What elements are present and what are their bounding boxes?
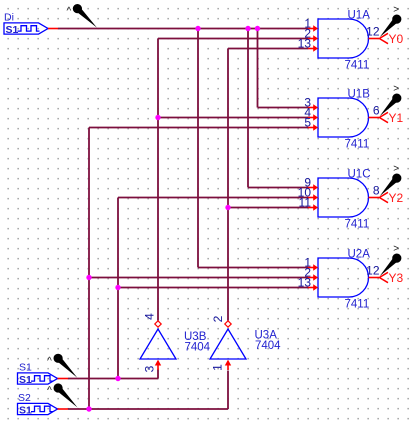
wire U3A input from S2 row [227,371,229,410]
pin number U1A.1 [304,16,311,30]
voltage probe on Y3 output [380,244,402,276]
pin number U3B.4 (output) [143,313,157,320]
wire vertical net S2 at x=89 [88,128,90,410]
svg-text:7411: 7411 [345,219,370,231]
svg-text:^: ^ [66,6,71,17]
wire S2 to U2A pin 2 [89,277,308,279]
wire Di branch to U2A pin 1 [198,267,308,269]
label U1C [348,168,371,180]
AND gate U2A (7411) [308,258,388,297]
junction S1 row / x118 [115,376,120,381]
pin number U3B.3 (input) [143,365,157,372]
wire /S2 to U1C pin 11 [228,207,308,209]
svg-text:3: 3 [143,365,157,372]
pin number U1C.11 [299,195,312,209]
net label Y3 [389,271,404,285]
voltage probe on S1 input [47,354,77,378]
AND gate U1A (7411) [308,19,388,58]
wire S1 row from connector to U3B input corner [68,378,158,380]
pin stub Di output [48,28,58,30]
voltage probe on Y0 output [380,5,402,37]
pin number U2A.13 [298,275,312,289]
svg-text:2: 2 [211,315,225,322]
pin number U1B.3 [304,95,311,109]
svg-text:S1: S1 [19,404,32,416]
pin number U1B.4 [304,105,311,119]
svg-text:Y1: Y1 [389,111,404,125]
svg-text:S1: S1 [6,24,19,36]
svg-text:12: 12 [366,25,380,39]
wire Di branch to U1C pin 9 [248,187,308,189]
pin number U1B.5 [304,115,311,129]
wire /S1 to U1B pin 4 [158,117,308,119]
pin number U2A.2 [304,265,311,279]
svg-text:U1A: U1A [348,9,371,21]
junction Di/x257.5 [255,26,260,31]
value label 7411 of U2A [345,299,370,311]
svg-text:Y3: Y3 [389,271,404,285]
net label Y2 [389,191,404,205]
pin number U3A.2 (output) [211,315,225,322]
input connector Di (pattern generator) [4,12,48,36]
svg-text:^: ^ [47,386,52,397]
inverter U3A (7404) [210,321,246,370]
svg-text:S2: S2 [18,392,31,404]
svg-text:13: 13 [298,36,312,50]
value label 7411 of U1B [345,139,370,151]
svg-text:7404: 7404 [185,342,211,354]
wire vertical net S1 at x=118 [117,198,119,379]
pin number U2A.12 (output) [366,264,380,278]
svg-text:1: 1 [211,364,225,371]
svg-text:13: 13 [298,275,312,289]
net label Y0 [389,32,404,46]
svg-text:S1: S1 [19,374,32,386]
svg-text:U1C: U1C [348,168,371,180]
label U2A [348,248,371,260]
label U1A [348,9,371,21]
junction S2 row / x89 [86,406,91,411]
svg-text:S1: S1 [19,362,32,374]
svg-text:>: > [393,244,399,255]
pin number U1B.6 (output) [373,104,380,118]
wire vertical net Di drop at x=248 [247,29,249,188]
svg-text:6: 6 [373,104,380,118]
wire Di branch to U1B pin 3 [258,107,309,109]
pin number U1C.8 (output) [373,184,380,198]
voltage probe on Y1 output [380,84,402,116]
pin stub S1 output [58,378,69,380]
junction S2 at U2A pin 2 row [86,275,91,280]
pin number U1C.9 [304,175,311,189]
svg-text:Y2: Y2 [389,191,404,205]
svg-text:5: 5 [304,115,311,129]
junction /S1 at U1B pin 4 row [155,115,160,120]
pin number U3A.1 (input) [211,364,225,371]
inverter U3B (7404) [140,321,176,370]
svg-text:7411: 7411 [345,139,370,151]
voltage probe on S2 input [47,383,77,407]
junction S1 at U2A pin 13 row [115,285,120,290]
wire vertical net /S2 (U3A output) at x=228 [227,49,229,321]
wire Di row to U1A pin 1 [58,28,308,30]
value label 7404 of U3A [255,340,281,352]
net label Y1 [389,111,404,125]
input connector S2 (pattern generator) [18,392,58,416]
svg-text:>: > [393,164,399,175]
svg-text:U1B: U1B [348,88,371,100]
wire S1 to U2A pin 13 [118,287,308,289]
value label 7411 of U1C [345,219,370,231]
svg-text:11: 11 [299,195,312,209]
svg-text:U2A: U2A [348,248,371,260]
pin number U1A.12 (output) [366,25,380,39]
AND gate U1B (7411) [308,98,388,137]
wire vertical net Di drop at x=198 [197,29,199,268]
junction /S2 at U1C pin 11 row [225,205,230,210]
svg-text:7411: 7411 [345,60,370,72]
junction Di/x248 [245,26,250,31]
label U3A [255,330,278,342]
label U1B [348,88,371,100]
wire vertical net Di drop at x=257.5 [257,29,259,108]
label U3B [184,331,207,343]
svg-text:Di: Di [4,12,14,24]
wire U3B input from S1 row [157,370,159,379]
svg-text:12: 12 [366,264,380,278]
value label 7411 of U1A [345,60,370,72]
svg-text:Y0: Y0 [389,32,404,46]
value label 7404 of U3B [185,342,211,354]
pin stub S2 output [58,408,69,410]
AND gate U1C (7411) [308,178,388,217]
junction Di/x198 [195,26,200,31]
svg-text:>: > [393,5,399,16]
wire /S1 to U1A pin 2 [158,38,308,40]
svg-text:7404: 7404 [255,340,281,352]
wire S2 row from connector to U3A input corner [68,408,228,410]
voltage probe on Y2 output [380,164,402,196]
pin number U1C.10 [298,185,312,199]
wire S1 to U1C pin 10 [118,197,308,199]
svg-text:7411: 7411 [345,299,370,311]
wire S2 to U1B pin 5 [89,127,308,129]
voltage probe on Di input [66,4,96,28]
wire vertical net /S1 (U3B output) at x=158 [157,39,159,321]
svg-text:4: 4 [143,313,157,320]
svg-text:^: ^ [47,356,52,367]
pin number U1A.2 [304,26,311,40]
input connector S1 (pattern generator) [18,362,58,386]
wire /S2 to U1A pin 13 [228,48,308,50]
pin number U2A.1 [304,255,311,269]
svg-text:>: > [393,84,399,95]
svg-text:8: 8 [373,184,380,198]
pin number U1A.13 [298,36,312,50]
